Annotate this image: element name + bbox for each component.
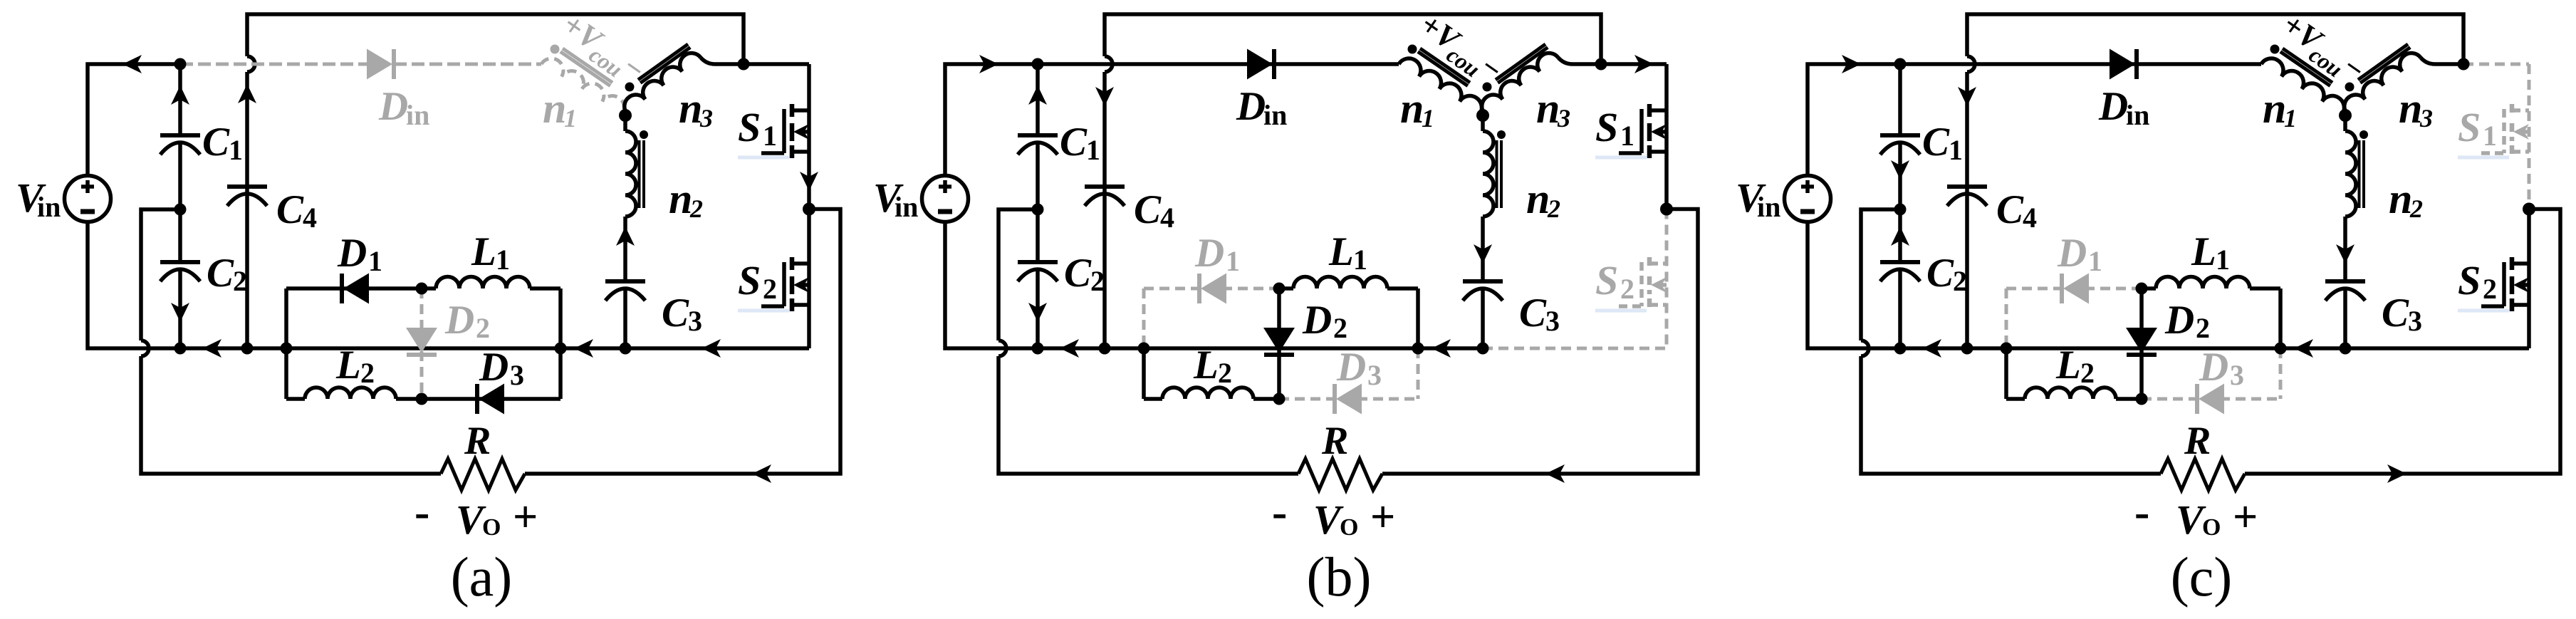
label D3 (a) [479,345,524,391]
svg-text:1: 1 [1620,120,1634,152]
svg-text:in: in [1263,99,1287,131]
wire c: C4 branch hop over row y=90 [1967,56,1975,72]
label D1 (b) [1194,231,1240,277]
svg-text:L: L [2055,343,2081,387]
resistor R (c) [2161,459,2245,490]
winding n2 (a) [625,115,636,281]
node: L1 riser on row (c) [2275,343,2287,355]
label C2 (b) [1064,251,1105,297]
svg-text:1: 1 [229,134,243,166]
node: upper rail / top wire junction (a) [738,58,750,71]
polarity dot n3 (b) [1483,83,1492,92]
svg-text:(c): (c) [2171,546,2233,608]
wire c: D3 row [2142,397,2280,401]
label C3 (c) [2382,291,2422,337]
svg-text:C: C [662,291,689,335]
label S1 (a) [738,104,789,160]
svg-text:D: D [2098,84,2128,129]
wire b: riser from D1 row to output row (inactive grey) [1142,288,1146,348]
wire c: Vin bottom lead to output row [1808,221,2529,348]
svg-text:D: D [2164,298,2194,343]
polarity dot n1 (a) [551,45,560,54]
label n2 (c) [2389,175,2423,223]
label S2 (c) [2458,257,2509,313]
svg-text:1: 1 [763,120,777,152]
core bar n2 (c) [2362,140,2365,208]
label n1 (a) [543,85,577,132]
node: upper rail / top wire junction (c) [2458,58,2470,71]
capacitor C3 (b) [1463,281,1503,348]
current arrow C1 branch (c) [1891,160,1909,180]
node: C3 bottom on row (b) [1477,343,1489,355]
current arrow C2 branch (c) [1891,227,1909,246]
winding n2 (b) [1483,115,1493,281]
current arrow row center (c) [2294,339,2313,358]
svg-text:2: 2 [2483,273,2497,305]
node: D1-L1-D2 junction (c) [2136,283,2148,295]
switch S2 (c) [2481,209,2529,349]
label C4 (b) [1134,187,1174,234]
winding n3 (a) [625,53,701,113]
wire a: bottom wire from R to right edge and up to S1/S2 node [525,209,840,474]
label C3 (b) [1519,291,1560,337]
diode Din (a) inactive grey [367,49,394,80]
svg-text:2: 2 [476,312,490,344]
svg-text:2: 2 [1620,273,1634,305]
wire c: riser D3 row to output row [2279,348,2283,399]
polarity dot n3 (c) [2345,83,2355,92]
svg-text:n: n [1526,175,1550,222]
current arrow C4 branch (a) [238,84,256,103]
node: coupled-inductor center (b) [1476,109,1489,122]
node: C2 bottom on row (a) [174,343,187,355]
svg-text:2: 2 [1218,357,1232,389]
wire b: upper rail from C1 node toward Din/n1 [1038,62,1399,66]
svg-text:S: S [738,104,761,150]
node: S1-S2 junction (a) [803,203,815,216]
node: C3 bottom on row (c) [2340,343,2352,355]
svg-text:2: 2 [2196,312,2210,344]
switch S1 (b) [1619,64,1667,209]
inductor L2 (b) [1144,387,1279,399]
wire b: row from C3 node to S2 (inactive, dashed grey) [1483,347,1667,350]
current arrow top-left rail (a) [122,55,142,73]
wire c: bottom return wire down and right to R [1861,356,2161,474]
label +Vcou- (b) [1410,6,1509,93]
svg-text:D: D [1302,298,1332,343]
core bar n1 (b) [1420,48,1470,83]
wire a: riser D3 row to output row [558,348,563,399]
label L1 (a) [471,229,510,276]
svg-text:3: 3 [688,305,702,337]
svg-text:in: in [1757,191,1780,223]
current arrow C4 branch (c) [1958,87,1976,106]
inductor L1 (a) [422,277,560,288]
svg-text:3: 3 [1545,305,1560,337]
svg-text:4: 4 [2023,202,2037,234]
capacitor C2 (c) [1880,209,1920,348]
node: D1-L1-D2 junction (b) [1273,283,1286,295]
wire b: bottom return wire down and right to R [998,356,1298,474]
wire a: top outer rail [247,14,744,64]
diode D2 branch (a) inactive grey [406,288,437,399]
label n3 (a) [679,85,713,132]
current arrow row left (a) [202,339,221,358]
inductor L1 (b) [1279,277,1418,288]
wire c: bottom wire from R to right edge and up to S1/S2 node [2245,209,2560,474]
diode D3 (c) inactive grey [2197,384,2224,415]
node: C4 bottom on row (b) [1099,343,1111,355]
label L1 (b) [1328,229,1367,276]
label S2 (a) [738,257,789,313]
svg-text:+: + [513,493,538,541]
wire b: bottom wire from R to right edge and up to S1/S2 node [1382,209,1698,474]
winding n2 (c) [2345,115,2356,281]
current arrow S1 source (a) [800,172,818,191]
svg-text:D: D [2057,231,2087,276]
svg-text:D: D [444,298,474,343]
label C3 (a) [662,291,702,337]
svg-text:3: 3 [510,359,524,391]
label output voltage Vo (c) [2134,487,2258,543]
current arrow row right (a) [702,339,721,358]
voltage source Vin (c) [1785,176,1831,222]
polarity dot n2 (c) [2359,130,2368,139]
winding n3 (b) [1482,53,1558,113]
svg-text:1: 1 [368,245,382,277]
label output voltage Vo (a) [414,487,538,543]
node: C2 bottom on row (b) [1032,343,1044,355]
svg-text:2: 2 [763,273,777,305]
label n2 (a) [669,175,703,223]
node: C3 bottom on row (a) [620,343,632,355]
capacitor C1 (b) [1018,64,1058,209]
svg-text:n: n [543,85,566,132]
diode D1 (c) inactive grey [2062,274,2089,304]
current arrow row center (a) [574,339,593,358]
diode D2 branch (b) [1263,288,1295,399]
wire a: D3 row [422,397,560,401]
svg-text:C: C [1060,120,1088,165]
label C1 (b) [1060,120,1100,166]
wire a: riser from output row to L2 row [284,348,288,399]
current arrow bottom wire (c) [2387,464,2406,483]
svg-text:-: - [1272,487,1287,537]
label Din (b) [1236,84,1287,131]
current arrow S1 drain feed (b) [1634,55,1654,73]
svg-text:S: S [1595,257,1618,303]
svg-text:C: C [1519,291,1547,335]
label L2 (b) [1193,343,1232,389]
wire a: upper rail from C1 node toward Din/n1 (inactive, dashed grey) [180,63,541,66]
inductor L2 (c) [2006,387,2142,399]
wire b: D1 row [1144,287,1279,291]
svg-text:2: 2 [233,265,247,297]
wire c: riser from output row to L2 row [2004,348,2008,399]
wire c: riser from D1 row to output row (inactive grey) [2005,288,2008,348]
wire c: upper rail from C1 node toward Din/n1 [1900,62,2261,66]
wire b: n3 to S1 top rail [1558,58,1667,64]
label +Vcou- (a) [553,6,652,93]
core bar n1 (c) [2283,48,2332,83]
svg-text:C: C [1996,187,2024,232]
resistor R (a) [441,459,525,490]
wire b: riser D3 row to output row [1417,348,1420,399]
label Vin (b) [873,175,918,223]
label output voltage Vo (b) [1272,487,1395,543]
wire a: D1 row [286,286,422,291]
polarity dot n2 (b) [1497,130,1506,139]
wire c: C4 branch vertical [1965,72,1969,348]
label Din (c) [2098,84,2149,131]
node: S1-S2 junction (c) [2523,203,2535,216]
svg-text:3: 3 [1557,104,1570,132]
svg-text:S: S [2458,104,2481,150]
wire b: riser L1 to output row [1416,288,1420,348]
svg-text:3: 3 [2419,104,2433,132]
svg-text:2: 2 [2080,357,2095,389]
label n1 (c) [2263,85,2297,132]
node: C2 bottom on row (c) [1894,343,1907,355]
wire a: bottom return hop over row [141,340,149,356]
svg-text:+: + [2233,493,2258,541]
label C1 (a) [202,120,243,166]
current arrow C2 branch (b) [1028,303,1047,322]
svg-text:in: in [895,191,918,223]
wire b: C4 branch vertical [1102,72,1107,348]
current arrow C2 branch (a) [171,303,189,322]
current arrow n2-C3 branch (c) [2336,244,2355,264]
wire b: bottom return hop over row [998,340,1006,356]
svg-text:1: 1 [1353,244,1367,276]
voltage source Vin (b) [922,176,969,222]
svg-text:C: C [207,251,234,296]
label S1 (c) [2458,104,2509,160]
svg-text:2: 2 [1547,194,1560,223]
svg-text:3: 3 [2408,305,2422,337]
node: coupled-inductor center (c) [2339,109,2352,122]
capacitor C2 (b) [1018,209,1058,348]
wire c: bottom return hop over row [1861,340,1869,356]
current arrow C1 branch (b) [1028,85,1047,105]
svg-text:C: C [202,120,230,165]
capacitor C1 (c) [1880,64,1920,209]
wire a: link C1C2 node to bottom return wire [141,209,180,340]
node: S1-S2 junction (b) [1660,203,1673,216]
wire c: link C1C2 node to bottom return wire [1861,209,1900,340]
node: L2-D2-D3 junction (c) [2136,393,2148,405]
diode D2 branch (c) [2126,288,2157,399]
svg-text:(b): (b) [1307,546,1372,608]
svg-text:3: 3 [2230,359,2244,391]
node: C4 bottom on row (a) [241,343,254,355]
current arrow row left (c) [1922,339,1941,358]
wire b: C4 branch hop over row y=90 [1105,56,1112,72]
wire a: bottom return wire down and right to R [141,356,441,474]
svg-text:n: n [2389,175,2412,222]
current arrow row center (b) [1432,339,1451,358]
svg-text:n: n [1400,85,1424,132]
svg-text:S: S [1595,104,1618,150]
core bar n1 (a) [563,48,612,83]
core bar n3 (c) [2358,44,2408,80]
svg-text:1: 1 [1422,104,1434,132]
winding n1 (c) [2261,58,2344,114]
wire b: top outer rail [1105,14,1601,64]
label D1 (a) [337,231,382,277]
label n1 (b) [1400,85,1434,132]
svg-text:1: 1 [564,104,577,132]
node: L2-D2-D3 junction (a) [416,393,428,405]
wire a: Vin bottom lead to output row [88,221,809,348]
svg-text:S: S [738,257,761,303]
switch S1 (c) inactive grey [2463,64,2529,209]
capacitor C4 (a) [227,187,267,206]
svg-text:C: C [1134,187,1162,232]
svg-text:in: in [406,99,429,131]
label n3 (c) [2399,85,2433,132]
svg-text:(a): (a) [451,546,513,608]
svg-text:L: L [2191,229,2216,274]
wire a: riser from D1 row to output row [284,288,288,348]
diode D3 (a) [477,384,504,415]
svg-text:1: 1 [2284,104,2297,132]
node: C1 top (b) [1032,58,1044,71]
diode D1 (b) inactive grey [1199,274,1226,304]
svg-text:2: 2 [2409,194,2423,223]
inductor L2 (a) [286,387,422,399]
svg-text:n: n [669,175,692,222]
label C2 (a) [207,251,247,297]
svg-text:R: R [2184,419,2211,463]
current arrow n2-C3 branch (a) [616,227,635,246]
wire c: D1 row [2006,287,2142,291]
svg-text:2: 2 [1090,265,1105,297]
svg-text:O: O [482,514,501,541]
current arrow bottom wire (a) [752,464,771,483]
label D2 (a) [444,298,490,344]
node: filter riser on row (a) [281,343,293,355]
diode Din (b) [1247,49,1274,80]
label D3 (c) [2199,345,2244,391]
node: C1-C2 junction (c) [1894,204,1907,216]
label C1 (c) [1922,120,1963,166]
svg-text:4: 4 [1160,202,1174,234]
current arrow bottom wire (b) [1545,464,1565,483]
current arrow n2-C3 branch (b) [1474,244,1492,264]
diode D3 (b) inactive grey [1335,384,1362,415]
svg-text:+: + [1370,493,1395,541]
label Vin (c) [1736,175,1780,223]
wire a: riser L1 to output row [558,288,563,348]
winding n1 (b) [1399,58,1481,114]
svg-text:S: S [2458,257,2481,303]
label D2 (c) [2164,298,2210,344]
node: upper rail / top wire junction (b) [1595,58,1607,71]
label Din (a) [378,84,429,131]
svg-text:C: C [1064,251,1092,296]
svg-text:O: O [1340,514,1358,541]
capacitor C4 (c) [1947,187,1987,206]
svg-text:L: L [1193,343,1219,387]
svg-text:2: 2 [1333,312,1347,344]
svg-text:C: C [1922,120,1950,165]
svg-text:n: n [2263,85,2286,132]
wire c: n3 to S1 top rail [2421,58,2463,64]
wire c: Vin top lead and upper-left rail [1808,64,1900,177]
node: coupled-inductor center (a) [619,109,632,122]
voltage source Vin (a) [65,176,111,222]
node: L1 riser on row (a) [555,343,567,355]
svg-text:D: D [378,84,408,129]
wire a: Vin top lead and upper-left rail [88,64,180,177]
wire a: n3 to S1 top rail [701,58,809,64]
core bar n3 (b) [1496,44,1545,80]
svg-text:L: L [1328,229,1354,274]
svg-text:n: n [679,85,702,132]
current arrow C4 branch (b) [1095,87,1114,106]
label C2 (c) [1926,251,1967,297]
node: C1-C2 junction (a) [174,204,187,216]
label L2 (c) [2055,343,2095,389]
svg-text:2: 2 [689,194,703,223]
wire c: top outer rail [1967,14,2463,64]
svg-text:in: in [37,191,61,223]
wire a: C4 branch vertical [245,72,249,348]
svg-text:C: C [276,187,304,232]
wire b: riser from output row to L2 row [1142,348,1146,399]
node: filter riser on row (b) [1138,343,1150,355]
node: C1 top (a) [174,58,187,71]
svg-text:in: in [2126,99,2149,131]
wire b: link C1C2 node to bottom return wire [998,209,1038,340]
capacitor C3 (c) [2325,281,2365,348]
resistor R (b) [1298,459,1382,490]
diode D1 (a) [342,274,369,304]
label n2 (b) [1526,175,1560,223]
capacitor C1 (a) [160,64,200,209]
svg-text:1: 1 [2216,244,2230,276]
node: filter riser on row (c) [2001,343,2013,355]
polarity dot n1 (b) [1408,45,1417,54]
svg-text:n: n [1536,85,1560,132]
node: C4 bottom on row (c) [1961,343,1973,355]
svg-text:-: - [414,487,429,537]
core bar n3 (a) [638,44,688,80]
label Vin (a) [16,175,61,223]
svg-text:R: R [1321,419,1348,463]
svg-text:3: 3 [699,104,713,132]
switch S1 (a) [761,64,809,209]
svg-text:R: R [464,419,491,463]
label C4 (a) [276,187,317,234]
svg-text:2: 2 [1953,265,1967,297]
node: L1 riser on row (b) [1412,343,1424,355]
wire b: D3 row [1279,397,1418,401]
capacitor C2 (a) [160,209,200,348]
svg-text:D: D [1236,84,1266,129]
inductor L1 (c) [2142,277,2280,288]
core bar n2 (a) [642,140,645,208]
switch S2 (a) [761,209,809,349]
current arrow row left (b) [1060,339,1079,358]
svg-text:1: 1 [496,244,510,276]
label D1 (c) [2057,231,2102,277]
svg-text:-: - [2134,487,2149,537]
svg-text:L: L [471,229,496,274]
svg-text:2: 2 [360,357,375,389]
svg-text:D: D [1336,345,1366,390]
